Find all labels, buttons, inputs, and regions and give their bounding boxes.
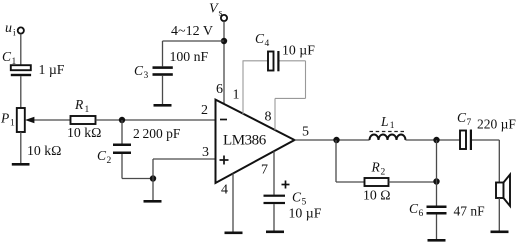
wire pin4 to ground [232, 173, 234, 231]
svg-text:3: 3 [144, 71, 149, 81]
node Vs supply terminal [221, 15, 227, 21]
capacitor C3 [153, 66, 173, 75]
wire C1 to P1 [20, 76, 22, 108]
plus input marker [220, 156, 229, 165]
svg-text:10 kΩ: 10 kΩ [67, 125, 101, 140]
svg-text:100 nF: 100 nF [170, 49, 209, 64]
capacitor C2 [113, 144, 131, 155]
resistor R1 [71, 116, 96, 124]
label C7 [457, 110, 472, 128]
svg-text:5: 5 [302, 124, 309, 139]
svg-text:1: 1 [12, 57, 17, 67]
svg-text:C: C [255, 31, 265, 46]
capacitor C7 [460, 130, 472, 151]
svg-text:C: C [2, 49, 12, 64]
wire pin7 to C5 [273, 151, 275, 195]
resistor R2 [365, 178, 389, 186]
svg-text:1 µF: 1 µF [39, 62, 65, 77]
wire C7 to speaker [472, 140, 499, 183]
svg-text:C: C [292, 190, 302, 205]
inductor L1 [370, 132, 407, 141]
label C6 [409, 201, 424, 219]
wire node down to C6 [436, 140, 438, 206]
label C5 [292, 190, 307, 208]
wire node to C2 [121, 120, 123, 144]
node ui input terminal [18, 27, 24, 33]
wire speaker to ground [498, 198, 500, 231]
ground C6 [428, 239, 446, 242]
ground speaker [491, 231, 509, 234]
svg-text:C: C [409, 201, 419, 216]
node junction pin5/R2 [333, 137, 339, 143]
svg-text:P: P [0, 111, 9, 126]
label P1 [0, 111, 15, 129]
wire R2 to node [389, 181, 437, 183]
svg-text:220 µF: 220 µF [477, 117, 516, 132]
label C1 [2, 49, 17, 67]
wire C5 to ground [273, 204, 275, 230]
svg-text:4: 4 [265, 39, 270, 49]
wire C6 to ground [436, 215, 438, 240]
svg-text:3: 3 [202, 145, 209, 160]
wire C3 to ground [162, 76, 164, 104]
wire pin5 output [295, 139, 370, 141]
svg-text:LM386: LM386 [223, 133, 267, 149]
label R2 [371, 160, 386, 178]
label C3 [134, 63, 149, 81]
svg-text:1: 1 [233, 88, 240, 103]
svg-text:2: 2 [381, 168, 386, 178]
node junction supply/C3 [221, 38, 227, 44]
wire C4 to pin8 (gray) [275, 61, 306, 130]
svg-text:C: C [134, 63, 144, 78]
wire pin1 up (gray) [242, 61, 244, 114]
label R1 [74, 97, 90, 115]
label Vs [209, 2, 223, 19]
wire ui to C1 [20, 34, 22, 66]
wire L1 to C7 [406, 139, 461, 141]
svg-text:i: i [13, 29, 16, 39]
wire R1 to pin2 [96, 119, 216, 121]
wire R2 branch left [336, 140, 365, 182]
label C4 [255, 31, 270, 49]
op-amp U1 LM386 triangle [216, 100, 295, 183]
svg-text:2 200 pF: 2 200 pF [133, 126, 181, 141]
node junction C2/pin3/ground [150, 175, 156, 181]
svg-text:R: R [74, 97, 84, 112]
ground P1 [12, 163, 30, 166]
svg-text:V: V [209, 2, 219, 17]
svg-text:C: C [97, 148, 107, 163]
svg-text:1: 1 [390, 121, 395, 131]
potentiometer P1 [17, 108, 25, 132]
wire pin1 to C4 (gray) [243, 60, 269, 62]
svg-text:6: 6 [216, 82, 223, 97]
svg-text:C: C [457, 110, 467, 125]
svg-text:10 kΩ: 10 kΩ [27, 143, 61, 158]
wiper arrow of P1 [25, 117, 71, 123]
wire Vs down to pin6 [223, 21, 225, 104]
node junction R1/C2 [119, 117, 125, 123]
ground pin4 [225, 232, 243, 235]
svg-text:R: R [371, 160, 381, 175]
node junction L1/C7 [433, 137, 439, 143]
svg-text:2: 2 [201, 103, 208, 118]
wire P1 to ground [20, 132, 22, 163]
ground C3 [154, 104, 172, 107]
svg-text:1: 1 [10, 119, 15, 129]
svg-text:7: 7 [467, 118, 472, 128]
svg-text:10 µF: 10 µF [282, 43, 315, 58]
svg-text:4~12 V: 4~12 V [171, 24, 213, 39]
capacitor C5 [264, 195, 286, 204]
capacitor C1 [11, 65, 31, 76]
node junction R2/C6 [433, 178, 439, 184]
svg-text:s: s [219, 9, 223, 19]
capacitor C4 [268, 51, 280, 71]
svg-text:u: u [5, 21, 12, 36]
speaker LS [496, 175, 510, 207]
svg-text:4: 4 [221, 183, 228, 198]
capacitor C6 [427, 206, 447, 215]
svg-text:8: 8 [265, 110, 272, 125]
wire C2 down and right [122, 154, 153, 179]
svg-text:1: 1 [85, 105, 90, 115]
label C2 [97, 148, 112, 166]
svg-text:7: 7 [261, 163, 268, 178]
ground C5 [266, 231, 284, 234]
minus input marker [220, 119, 227, 121]
svg-text:10 µF: 10 µF [289, 206, 322, 221]
label L1 [380, 114, 395, 131]
svg-text:47 nF: 47 nF [454, 203, 486, 218]
wire pin3 [153, 158, 216, 160]
label ui [5, 21, 16, 39]
svg-text:10 Ω: 10 Ω [363, 188, 391, 203]
plus marker C5 [282, 181, 290, 189]
wire supply to C3 [163, 41, 225, 66]
svg-text:6: 6 [419, 209, 424, 219]
svg-text:2: 2 [107, 156, 112, 166]
svg-text:L: L [380, 114, 389, 129]
wire junction up to pin3 level [152, 159, 154, 200]
ground C2 [144, 200, 162, 203]
